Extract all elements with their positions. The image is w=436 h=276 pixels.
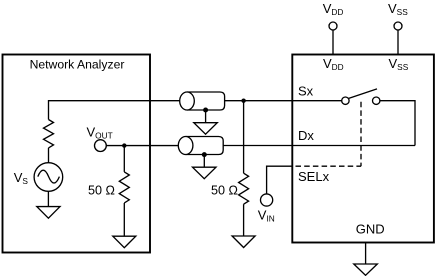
supply VDD circle (329, 22, 337, 30)
wire top (Sx net: source to coax1) (49, 101, 181, 120)
wire VOUT to coax2 (106, 145, 178, 147)
node junction coax2 shield (202, 152, 207, 157)
wire coax1 shield to ground (205, 110, 207, 123)
wire junction down to R 50ohm (123, 146, 125, 172)
wire R2 to ground (243, 204, 245, 236)
svg-text:VSS: VSS (389, 56, 409, 72)
terminal VIN (261, 194, 273, 206)
supply VSS circle (394, 22, 402, 30)
svg-text:VDD: VDD (323, 1, 344, 17)
svg-text:SELx: SELx (298, 169, 330, 184)
ground (coax1 shield) (194, 123, 218, 135)
wire VS to ground (47, 191, 49, 206)
wire R1 to ground (123, 203, 125, 236)
wire RS to VS (48, 148, 50, 163)
svg-text:50 Ω: 50 Ω (211, 184, 238, 198)
switch S1 (342, 97, 349, 104)
resistor R1 50ohm (119, 172, 129, 203)
ground (below VS) (37, 207, 60, 219)
wire SELx control (dashed) (360, 102, 362, 167)
coax cable J2 (bottom) (186, 137, 224, 155)
wire coax1 to switch Sx (225, 100, 342, 102)
node junction VOUT/R term (122, 143, 126, 147)
wire Sx junction down to R2 50ohm (243, 101, 245, 174)
wire VIN to SELx (267, 166, 293, 194)
source VS (34, 163, 63, 192)
node junction Sx/R2 (241, 99, 245, 103)
wire GND to ground (365, 243, 367, 265)
wire switch to Dx riser (380, 101, 415, 146)
box U1 Network Analyzer (3, 55, 151, 253)
terminal VOUT (95, 140, 107, 152)
wire coax2 shield to ground (203, 155, 205, 168)
node junction coax1 shield (203, 108, 208, 113)
resistor RS (44, 120, 54, 148)
svg-text:Sx: Sx (298, 84, 314, 99)
resistor R2 50ohm (239, 173, 249, 204)
svg-text:VSS: VSS (388, 1, 408, 17)
svg-text:Network Analyzer: Network Analyzer (30, 57, 125, 71)
svg-text:VIN: VIN (258, 207, 275, 223)
coax cable J1 (top) (187, 92, 225, 110)
svg-text:50 Ω: 50 Ω (88, 184, 115, 198)
ground (GND) (354, 264, 378, 275)
svg-text:Dx: Dx (298, 128, 314, 143)
svg-text:GND: GND (356, 222, 385, 237)
ground (below R2) (232, 236, 255, 248)
ground (coax2 shield) (193, 167, 217, 179)
wire VDD pin (332, 30, 334, 55)
ground (below R1) (113, 236, 136, 248)
svg-text:VDD: VDD (323, 56, 344, 72)
box U2 DUT (292, 55, 434, 243)
wire VSS pin (397, 30, 399, 55)
wire coax2 to Dx (into box) (223, 145, 415, 147)
